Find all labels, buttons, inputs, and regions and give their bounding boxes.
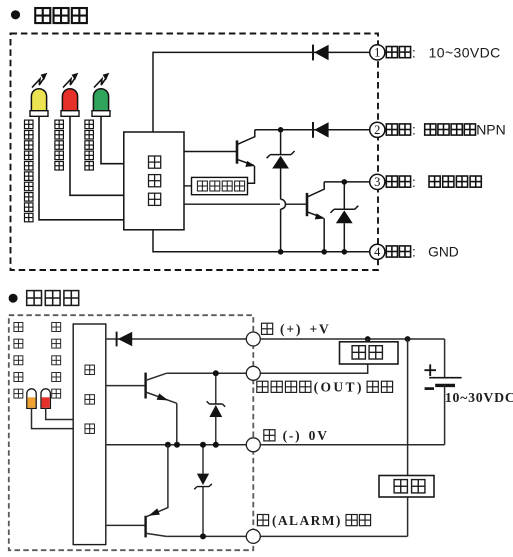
terminal: OUT	[246, 366, 260, 380]
transistor Q1 (NPN)	[237, 130, 255, 184]
wire: +V brown rail	[106, 338, 445, 340]
svg-text::: :	[412, 45, 416, 60]
short-circuit protection box U2	[192, 177, 248, 194]
wire: ALARM riser from +V	[407, 339, 409, 476]
junction node: T1 emitter on 0V rail	[174, 442, 180, 448]
wire: 0V blue rail	[106, 444, 445, 446]
zener diode Z2	[330, 182, 358, 252]
junction node: ALARM riser on +V rail	[405, 336, 411, 342]
transistor T1 (NPN)	[146, 373, 177, 445]
label: brown (+) +V	[262, 322, 331, 337]
svg-text::: :	[412, 123, 416, 138]
terminal: blue (-) 0V	[246, 438, 260, 452]
label: brown 10~30VDC	[386, 44, 500, 60]
diode D2 on output wire	[313, 122, 329, 138]
junction node: Z2 bottom on GND rail	[342, 249, 348, 255]
label: alarm indicator (vertical CJK)	[14, 323, 23, 399]
transistor Q2 base wire (hops over Z1)	[184, 203, 307, 205]
load box RL2	[379, 476, 434, 498]
bullet for single-channel title	[11, 10, 20, 19]
transistor T2 base wire	[106, 524, 146, 526]
junction node: load1 stub on +V rail	[365, 336, 371, 342]
label: yellow (ALARM) output	[257, 513, 370, 528]
dashed enclosure box (single channel)	[11, 34, 379, 271]
label: power-on adjust & alarm indicator (vertical CJK)	[24, 120, 33, 222]
LED D6 action indicator (red) with light arrows	[61, 73, 79, 116]
svg-text::: :	[412, 245, 416, 260]
transistor Q2 (NPN)	[307, 182, 325, 252]
zener diode Z1	[267, 130, 295, 252]
wire: T2 emitter ALARM wire	[166, 535, 407, 537]
label: power indicator (vertical CJK)	[85, 120, 94, 170]
label: white alarm output	[386, 175, 481, 190]
title: four channel (CJK)	[27, 291, 79, 306]
diode D3 on +V rail	[117, 332, 133, 347]
LED D9 action indicator (red)	[41, 389, 50, 409]
junction node: Q2 emitter on GND rail	[321, 249, 327, 255]
transistor T1 base wire	[106, 385, 146, 387]
wire: load2 to ALARM wire	[407, 497, 409, 536]
label: white-green-black-red (OUT) output	[257, 380, 393, 395]
svg-text:NPN: NPN	[476, 122, 506, 138]
svg-text:2: 2	[374, 123, 380, 137]
transistor Q1 base wire	[184, 151, 237, 153]
label: action indicator (vertical CJK)	[55, 120, 64, 170]
terminal 3 (white wire)	[370, 174, 385, 189]
LED D7 power indicator (green) with light arrows	[92, 73, 110, 116]
junction node: ZB2 bottom on ALARM wire	[200, 533, 206, 539]
terminal: yellow ALARM	[246, 529, 260, 543]
wire: OUT terminal to load1	[260, 364, 367, 373]
terminal: brown (+) +V	[246, 332, 260, 346]
LED D5 power-on/alarm indicator (yellow) with light arrows	[30, 73, 48, 116]
svg-text:(OUT): (OUT)	[314, 380, 364, 395]
dashed enclosure box (four channel)	[9, 315, 254, 550]
wire: red LED lead	[46, 408, 73, 419]
label: black action output NPN	[386, 122, 505, 138]
junction node: Z1 bottom on GND rail	[278, 249, 284, 255]
wire: green LED lead to main circuit	[101, 116, 124, 163]
diode D1 on +V wire	[313, 45, 329, 61]
zener diode ZB1	[207, 373, 226, 445]
wire: main circuit top to terminal 1	[153, 52, 369, 132]
wire: yellow LED lead to main circuit	[39, 116, 124, 220]
svg-text:GND: GND	[428, 245, 459, 260]
svg-text:10~30VDC: 10~30VDC	[445, 390, 513, 405]
load box RL1	[340, 339, 399, 364]
svg-text:10~30VDC: 10~30VDC	[429, 44, 501, 60]
zener diode ZB2 (pointing down)	[194, 445, 212, 537]
LED D8 alarm indicator (orange)	[27, 389, 36, 409]
junction node: ZB2 top on 0V rail	[200, 442, 206, 448]
junction node: zener Z1 top	[278, 127, 284, 133]
title: single channel (CJK)	[35, 8, 87, 23]
bullet for four-channel title	[9, 294, 18, 303]
terminal 4 (blue wire)	[370, 244, 385, 259]
battery BT1 10~30VDC	[424, 339, 461, 445]
wire: main circuit to short-circuit protection	[184, 185, 192, 187]
wire: orange LED lead	[32, 408, 74, 428]
terminal 1 (brown wire)	[370, 45, 385, 60]
svg-text:(ALARM): (ALARM)	[272, 513, 342, 528]
svg-text:1: 1	[374, 46, 380, 60]
label: blue GND	[386, 245, 458, 260]
terminal 2 (black wire)	[370, 122, 385, 137]
label: 10~30VDC battery value	[445, 390, 513, 405]
wire: red LED lead to main circuit	[70, 116, 124, 195]
svg-text::: :	[412, 175, 416, 190]
svg-text:(-) 0V: (-) 0V	[283, 428, 329, 443]
transistor T2 (PNP, arrow into base)	[146, 508, 167, 537]
wire: T1 collector to OUT terminal	[167, 372, 368, 374]
label: blue (-) 0V	[264, 428, 329, 443]
svg-text:(+) +V: (+) +V	[280, 322, 331, 337]
wire: Q1 collector to terminal 2	[255, 129, 370, 131]
main circuit block U1	[124, 132, 184, 230]
wire: Q2 collector to terminal 3	[324, 181, 369, 183]
wire: 0V rail down to T2	[147, 445, 168, 517]
svg-text:4: 4	[374, 245, 381, 259]
main circuit block U3	[73, 324, 106, 545]
junction node: T2 riser on 0V rail	[165, 442, 171, 448]
label: action indicator (vertical CJK)	[52, 323, 61, 399]
wire: main circuit bottom to terminal 4 (GND rail)	[153, 230, 369, 252]
svg-text:3: 3	[374, 175, 380, 189]
junction node: zener Z2 top	[342, 179, 348, 185]
junction node: ZB1 bottom on 0V rail	[213, 442, 219, 448]
junction node: zener ZB1 top on OUT wire	[213, 370, 219, 376]
